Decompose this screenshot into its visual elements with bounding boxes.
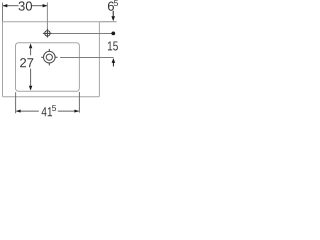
dimension line 30 left segment [3, 5, 19, 7]
tap hole symbol [43, 29, 52, 38]
arrow right of dim 30 [43, 4, 48, 7]
dimension 27 upper segment [30, 48, 32, 56]
washbasin outer outline [3, 22, 100, 97]
extension line left (dim 30) [2, 3, 4, 22]
label 27 [20, 58, 33, 67]
arrow left of dim 30 [3, 4, 8, 7]
drain hole symbol [41, 49, 57, 66]
dimension 27 down arrow [29, 86, 32, 91]
arrow up of dim 15 [112, 58, 116, 63]
label 15 [108, 41, 118, 50]
dimension line 30 right segment [32, 5, 47, 7]
arrow right of dim 41.5 [74, 110, 79, 113]
dimension 27 lower segment [30, 69, 32, 87]
dimension line 41.5 left segment [16, 110, 39, 112]
extension line bowl left (dim 41.5) [15, 92, 17, 113]
dot marker (shared point dims 6.5/15) [111, 32, 115, 36]
dimension line 41.5 right segment [58, 110, 79, 112]
arrow down of dim 6.5 [112, 11, 114, 17]
bowl outline [16, 43, 80, 91]
top edge extension line (dim 6.5) [99, 21, 116, 23]
extension line bowl right (dim 41.5) [78, 92, 80, 113]
extension line tap hole (dim 30) [46, 3, 48, 29]
drain leader line [60, 57, 114, 59]
label 6_5 [108, 2, 114, 11]
label 30 [19, 1, 32, 10]
dimension 27 up arrow [29, 43, 32, 48]
tap hole leader line [52, 33, 112, 35]
arrow left of dim 41.5 [16, 110, 21, 113]
label 41_5 [42, 107, 53, 116]
